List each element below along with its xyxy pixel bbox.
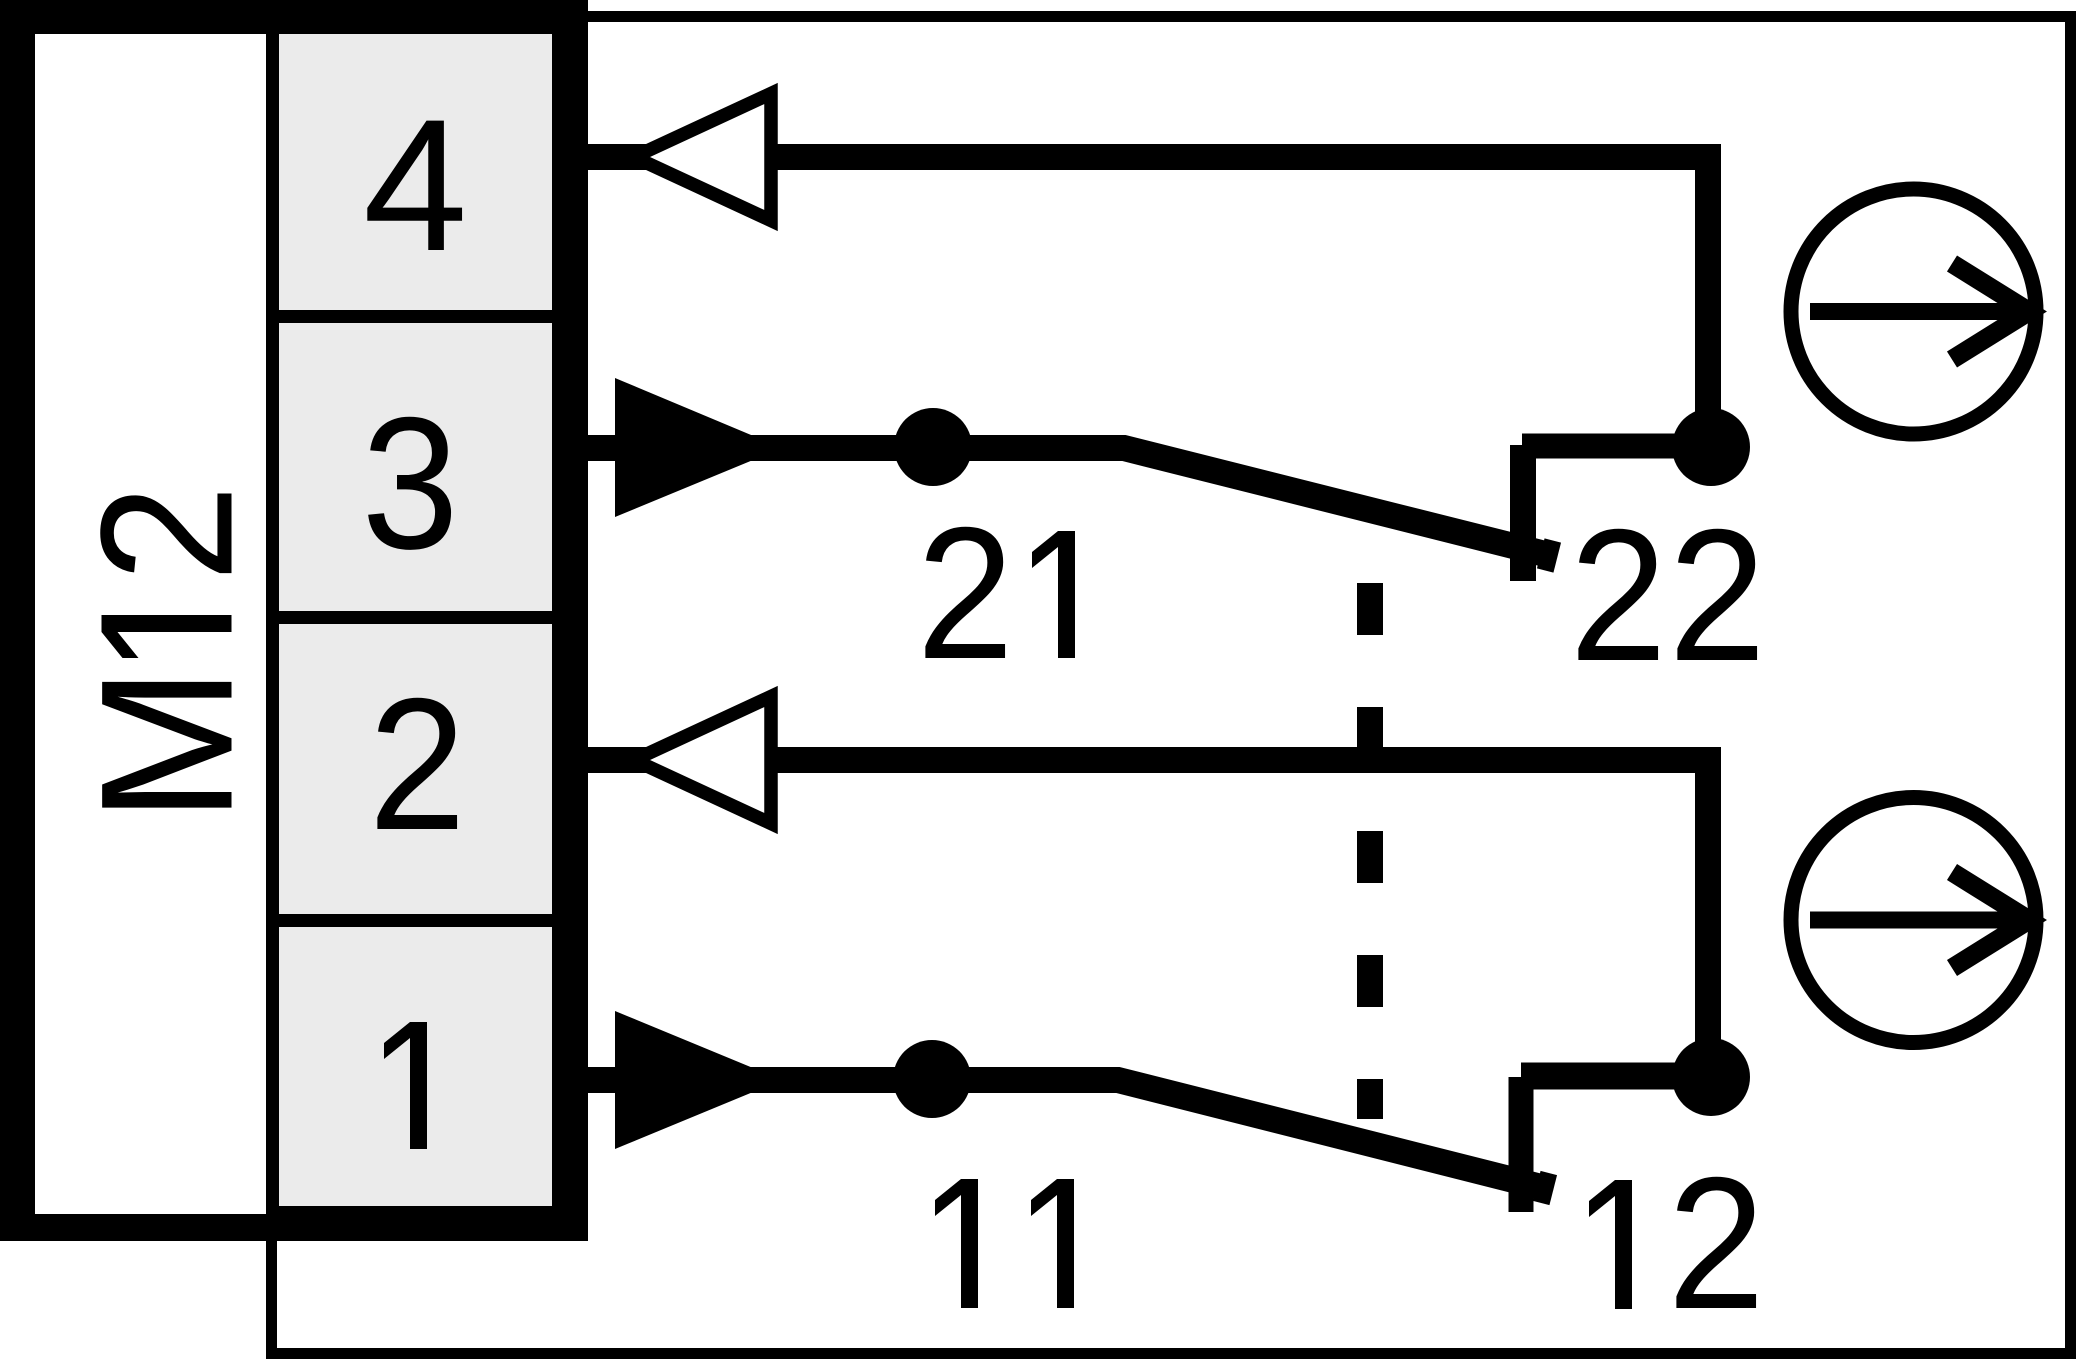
actuator symbol lower circle <box>1791 798 2036 1043</box>
open arrow pin 2 <box>634 697 771 824</box>
wire pin 4 stub <box>588 144 652 170</box>
filled arrow pin 1 <box>615 1011 782 1149</box>
wire pin 1 <box>588 1067 1118 1093</box>
actuator symbol upper circle <box>1791 189 2036 434</box>
pin 2 box <box>279 624 552 914</box>
switch blade 11-12 <box>1075 1080 1545 1188</box>
open arrow pin 4 <box>634 94 771 221</box>
svg-text:M: M <box>62 666 272 823</box>
label 11 <box>935 1179 1074 1308</box>
svg-text:3: 3 <box>362 379 459 588</box>
connector M12 label box <box>35 34 266 1214</box>
node 22 <box>1672 408 1750 486</box>
wire pin 2 stub <box>588 747 652 773</box>
blade 11-12 end tick <box>1541 1173 1549 1203</box>
svg-text:2: 2 <box>917 489 1014 698</box>
actuator upper arrow shaft <box>1810 303 2022 320</box>
pin 4 box <box>279 34 552 310</box>
pin 1 box <box>279 927 552 1206</box>
connector body outline <box>0 0 588 1241</box>
label 21 <box>917 489 1075 698</box>
pin 3 box <box>279 323 552 611</box>
svg-text:2: 2 <box>1668 1139 1765 1348</box>
svg-text:4: 4 <box>363 80 468 290</box>
actuator upper arrow head <box>1952 264 2029 360</box>
pin 1 label <box>384 1022 427 1149</box>
node 21 <box>894 408 972 486</box>
blade 21-22 end tick <box>1545 541 1553 571</box>
node 12 <box>1672 1038 1750 1116</box>
label 12 <box>1589 1139 1765 1348</box>
label 22 <box>1570 491 1766 700</box>
fixed contact 12 hook <box>1509 1077 1534 1212</box>
svg-text:2: 2 <box>369 660 466 869</box>
actuator lower arrow shaft <box>1810 912 2022 929</box>
wire pin 2 to node 12 <box>765 760 1708 1077</box>
svg-text:2: 2 <box>1669 491 1766 700</box>
node 11 <box>893 1040 971 1118</box>
fixed contact 22 hook <box>1510 445 1536 581</box>
mechanical link dashed line <box>1357 583 1383 1119</box>
switch blade 21-22 <box>1080 448 1549 555</box>
wire pin 4 to node 22 <box>765 157 1708 447</box>
svg-text:2: 2 <box>1570 491 1667 700</box>
wire pin 3 <box>588 435 1124 461</box>
actuator lower arrow head <box>1952 872 2029 968</box>
svg-text:2: 2 <box>63 485 272 582</box>
label M12 <box>62 485 272 823</box>
filled arrow pin 3 <box>615 378 782 517</box>
